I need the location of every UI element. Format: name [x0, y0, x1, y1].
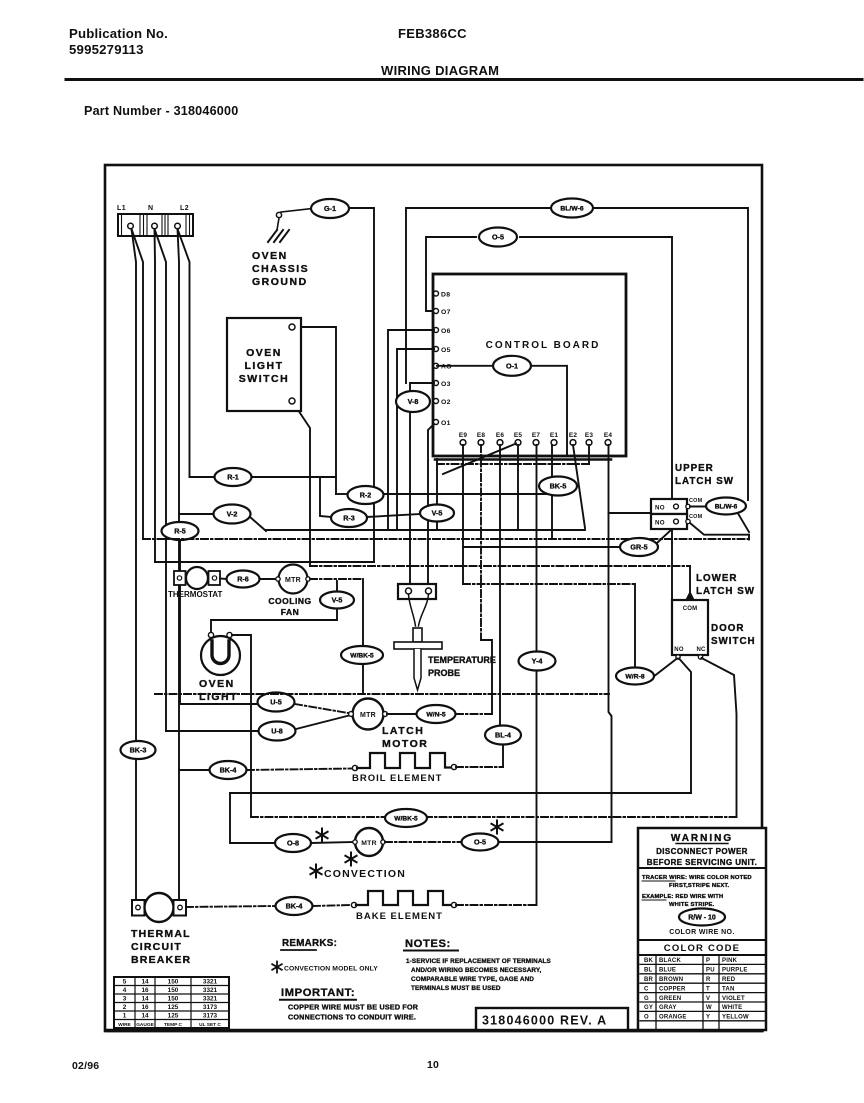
bake element: [351, 891, 456, 908]
wire label BL-4: [485, 726, 521, 745]
wire upper latch NO1 to BL/W-6: [690, 506, 706, 508]
wire pin O5 left and down: [397, 349, 434, 530]
wire row 494 G-2: [336, 493, 347, 495]
wire label R-1: [215, 468, 252, 486]
svg-text:3173: 3173: [203, 1004, 218, 1011]
svg-text:U-8: U-8: [271, 727, 283, 736]
svg-text:BK-5: BK-5: [550, 482, 567, 491]
tracer wire text: [642, 875, 752, 908]
svg-text:NO: NO: [655, 520, 665, 527]
wire label BL/W-6 top: [551, 199, 593, 218]
svg-text:O-5: O-5: [492, 233, 504, 242]
wire row 539 dash-dot: [143, 538, 749, 540]
svg-text:E9: E9: [459, 432, 468, 439]
svg-text:150: 150: [168, 987, 179, 994]
svg-text:SWITCH: SWITCH: [239, 373, 289, 385]
svg-text:P: P: [706, 958, 710, 964]
svg-text:COLOR WIRE NO.: COLOR WIRE NO.: [669, 929, 735, 936]
wire BL/W-6 junction stub to row 539: [748, 535, 750, 540]
svg-text:PROBE: PROBE: [428, 668, 460, 678]
svg-text:G-1: G-1: [324, 204, 336, 213]
svg-text:LIGHT: LIGHT: [199, 691, 238, 703]
wire pin E5 down: [517, 445, 519, 530]
svg-text:MTR: MTR: [361, 840, 377, 847]
svg-text:W/N-5: W/N-5: [426, 712, 445, 719]
control board pin E5: [514, 432, 523, 445]
svg-text:CHASSIS: CHASSIS: [252, 263, 309, 275]
upper latch switch body: [651, 499, 690, 529]
control board pin O1: [434, 420, 451, 427]
asterisk after O-8: [316, 829, 327, 842]
wire pin E7 down to Y-4: [536, 445, 538, 652]
svg-text:OVEN: OVEN: [246, 347, 282, 359]
wire label V-5 upper: [420, 505, 454, 522]
svg-text:BROIL ELEMENT: BROIL ELEMENT: [352, 773, 442, 784]
wire label U-5: [258, 693, 295, 712]
svg-text:BEFORE SERVICING UNIT.: BEFORE SERVICING UNIT.: [647, 858, 757, 867]
svg-text:COM: COM: [689, 498, 703, 504]
svg-text:O-1: O-1: [506, 361, 518, 370]
svg-text:RED: RED: [722, 977, 736, 983]
control board pin O5: [434, 347, 451, 354]
control board pin D8: [434, 291, 451, 298]
wire label W/N-5: [417, 705, 456, 723]
svg-text:E8: E8: [477, 432, 486, 439]
wire oven light switch top pin to vertical x336: [295, 327, 336, 494]
wire gauge table: [114, 977, 229, 1028]
svg-text:3321: 3321: [203, 979, 218, 986]
control board pin O2: [434, 399, 451, 406]
svg-text:O-8: O-8: [287, 839, 299, 848]
broil element: [352, 753, 456, 771]
svg-text:R-5: R-5: [174, 527, 186, 536]
svg-text:02/96: 02/96: [72, 1060, 99, 1072]
svg-text:O6: O6: [441, 328, 451, 335]
wire BK-4 to broil element dash-dot: [247, 769, 352, 771]
svg-text:BK-4: BK-4: [220, 766, 237, 775]
temperature probe body: [394, 628, 442, 690]
svg-text:R/W - 10: R/W - 10: [688, 915, 716, 922]
svg-text:EXAMPLE: RED WIRE WITH: EXAMPLE: RED WIRE WITH: [642, 894, 723, 900]
svg-text:GREEN: GREEN: [659, 996, 681, 1002]
wire label R-3: [331, 509, 367, 527]
svg-text:3321: 3321: [203, 987, 218, 994]
wire O-1 oval to internal vertical: [531, 366, 567, 454]
important copper wire text: [288, 1003, 419, 1022]
control board pin O7: [434, 309, 451, 316]
svg-text:MOTOR: MOTOR: [382, 738, 428, 750]
wire V-2 diagonal: [250, 517, 266, 531]
svg-text:COMPARABLE WIRE TYPE, GAGE AND: COMPARABLE WIRE TYPE, GAGE AND: [411, 976, 534, 983]
svg-text:LOWER: LOWER: [696, 573, 737, 584]
svg-text:PURPLE: PURPLE: [722, 968, 748, 974]
svg-text:R: R: [706, 977, 711, 983]
wire row 562: [155, 561, 374, 563]
wire vertical to W/R-8: [634, 584, 636, 667]
svg-text:3: 3: [123, 996, 127, 1003]
wire row 530: [266, 529, 585, 531]
label COOLING FAN: [268, 596, 311, 617]
ground stem: [277, 218, 279, 230]
wire convection motor to O-5 dash-dot: [385, 841, 461, 843]
wire label Y-4: [519, 652, 556, 671]
svg-text:OVEN: OVEN: [252, 250, 288, 262]
svg-text:FIRST,STRIPE NEXT.: FIRST,STRIPE NEXT.: [669, 883, 729, 889]
control board pin O3: [434, 381, 451, 388]
svg-text:E7: E7: [532, 432, 541, 439]
svg-text:318046000 REV. A: 318046000 REV. A: [482, 1014, 607, 1028]
svg-text:BL/W-6: BL/W-6: [715, 504, 738, 511]
svg-text:O2: O2: [441, 399, 451, 406]
wire L1 diagonal branch down to R-5 row: [132, 229, 144, 539]
svg-text:LATCH SW: LATCH SW: [696, 586, 755, 597]
svg-text:5: 5: [123, 979, 127, 986]
wire row 793 door legs to O-8: [230, 792, 691, 794]
wire label W/BK-5 upper: [341, 646, 383, 664]
wire diagonal to pin E5: [443, 444, 516, 475]
svg-text:BREAKER: BREAKER: [131, 954, 191, 966]
svg-text:NC: NC: [696, 647, 706, 653]
terminal L2 screw: [175, 223, 181, 229]
svg-text:NO: NO: [655, 505, 665, 512]
wire label O-5 lower: [462, 834, 499, 851]
wire pin O1 down to probe connector right: [428, 424, 434, 584]
wire BL/W-6 bottom leg: [738, 514, 749, 533]
svg-text:4: 4: [123, 987, 127, 994]
svg-text:E3: E3: [585, 432, 594, 439]
svg-text:W/BK-5: W/BK-5: [350, 653, 374, 660]
door switch body: [672, 600, 708, 655]
wire label R-5: [162, 522, 199, 540]
wire pin O6 left and down: [388, 330, 434, 530]
svg-text:LATCH: LATCH: [382, 725, 424, 737]
wire label O-5 top: [479, 228, 517, 247]
color code divider: [638, 939, 766, 941]
latch motor MTR: [349, 699, 388, 730]
thermostat body: [174, 567, 220, 589]
svg-text:TRACER WIRE: WIRE COLOR NOTED: TRACER WIRE: WIRE COLOR NOTED: [642, 875, 752, 881]
wire row 547 GR-5: [463, 546, 620, 548]
svg-text:E2: E2: [569, 432, 578, 439]
svg-text:CONVECTION MODEL ONLY: CONVECTION MODEL ONLY: [284, 966, 378, 973]
svg-text:5995279113: 5995279113: [69, 42, 144, 57]
wire label G-1: [311, 199, 349, 218]
svg-text:150: 150: [168, 979, 179, 986]
warning color code box: [638, 828, 766, 1030]
wire O-8 to convection motor: [311, 842, 355, 843]
svg-text:Y-4: Y-4: [532, 657, 543, 666]
asterisk below convection motor: [345, 853, 356, 866]
lower latch switch label: [696, 573, 755, 597]
warning text: [647, 833, 757, 867]
svg-text:BLACK: BLACK: [659, 958, 681, 964]
wire row 518 R-3 to V-5: [320, 477, 331, 517]
wire ground to G-1 oval: [281, 209, 312, 213]
svg-text:E5: E5: [514, 432, 523, 439]
wire label O-1: [493, 356, 531, 376]
svg-text:BAKE ELEMENT: BAKE ELEMENT: [356, 911, 443, 922]
wire cooling fan to W/BK-5 vertical dash-dot: [310, 578, 363, 580]
wire V-8 down to probe connector left: [409, 412, 411, 584]
control board pin E6: [496, 432, 505, 445]
wire row 584 dashed: [463, 583, 635, 585]
svg-text:E4: E4: [604, 432, 613, 439]
control board pin E7: [532, 432, 541, 445]
upper latch switch label: [675, 463, 734, 487]
svg-text:Part Number - 318046000: Part Number - 318046000: [84, 104, 238, 118]
diagram border frame: [105, 165, 762, 1031]
wire label R-2: [348, 486, 384, 504]
wire thermostat to R-6: [220, 578, 227, 581]
svg-text:16: 16: [141, 987, 149, 994]
wire label W/R-8: [616, 668, 654, 685]
wire L2 diagonal branch down to R-1 row: [178, 229, 190, 477]
wire R-5 down to thermostat: [179, 540, 181, 570]
svg-text:SWITCH: SWITCH: [711, 636, 756, 647]
svg-text:BLUE: BLUE: [659, 968, 676, 974]
temperature probe connector: [398, 584, 436, 599]
label OVEN CHASSIS GROUND: [252, 250, 309, 288]
svg-text:W/BK-5: W/BK-5: [394, 816, 418, 823]
control board pin E2: [569, 432, 578, 445]
wire BL-4 down to broil element: [502, 745, 504, 767]
wire pin E8 down dashed: [480, 445, 482, 640]
svg-text:14: 14: [141, 1013, 149, 1020]
wire row 477 R-1: [190, 476, 215, 478]
control board pin E8: [477, 432, 486, 445]
svg-text:COOLING: COOLING: [268, 596, 311, 606]
svg-text:GR-5: GR-5: [630, 543, 647, 552]
svg-text:1-SERVICE IF REPLACEMENT OF TE: 1-SERVICE IF REPLACEMENT OF TERMINALS: [406, 958, 552, 965]
svg-text:BROWN: BROWN: [659, 977, 683, 983]
header rule: [66, 78, 862, 81]
svg-text:WARNING: WARNING: [671, 833, 733, 844]
svg-text:AO: AO: [441, 364, 452, 371]
wire vertical x363 to W/BK-5: [362, 579, 364, 645]
wire O-5 top loop from control board pin O7: [426, 237, 476, 311]
svg-text:NO: NO: [674, 647, 684, 653]
wire label V-5 lower: [320, 592, 354, 609]
asterisk above O-5 right: [491, 821, 502, 834]
svg-text:AND/OR WIRING BECOMES NECESSAR: AND/OR WIRING BECOMES NECESSARY,: [411, 967, 542, 974]
svg-text:V: V: [706, 996, 710, 1002]
svg-text:REMARKS:: REMARKS:: [282, 938, 337, 949]
thermal circuit breaker: [132, 893, 186, 922]
door switch pin NO: [676, 655, 680, 659]
svg-text:COLOR CODE: COLOR CODE: [664, 943, 740, 954]
wire pin E9 down: [462, 445, 464, 584]
svg-text:O-5: O-5: [474, 838, 486, 847]
svg-text:PU: PU: [706, 968, 715, 974]
svg-text:Y: Y: [706, 1015, 710, 1021]
wire V-5 top feed: [436, 459, 438, 504]
svg-text:UL SET C: UL SET C: [199, 1022, 221, 1028]
wire pin E1 down through BK-5 to row 539: [551, 445, 553, 539]
remark convection model only: [272, 962, 378, 973]
svg-text:ORANGE: ORANGE: [659, 1015, 687, 1021]
svg-text:U-5: U-5: [270, 698, 282, 707]
svg-text:14: 14: [141, 979, 149, 986]
label TEMPERATURE PROBE: [428, 655, 496, 678]
svg-text:IMPORTANT:: IMPORTANT:: [281, 987, 355, 999]
svg-text:TAN: TAN: [722, 986, 735, 992]
label OVEN LIGHT: [199, 678, 238, 703]
terminal block L1 N L2: [118, 214, 193, 236]
svg-text:CONVECTION: CONVECTION: [324, 868, 406, 880]
control board box: [433, 274, 626, 456]
door switch pin NC: [698, 655, 702, 659]
wire U-8 row: [166, 730, 258, 732]
wire pin E6 down to BL-4: [499, 445, 501, 726]
svg-text:COPPER WIRE MUST BE USED FOR: COPPER WIRE MUST BE USED FOR: [288, 1003, 419, 1012]
svg-text:PINK: PINK: [722, 958, 738, 964]
wire O-8 feed corner: [230, 793, 274, 843]
control board pin O6: [434, 328, 451, 335]
wire oven light right pin down to row 817: [232, 635, 251, 817]
svg-text:DISCONNECT POWER: DISCONNECT POWER: [656, 847, 748, 856]
ground chassis hatch: [268, 230, 289, 242]
svg-text:W: W: [706, 1005, 712, 1011]
control board pin E4: [604, 432, 613, 445]
wire label U-8: [259, 722, 296, 741]
svg-text:O1: O1: [441, 420, 451, 427]
svg-text:WIRE: WIRE: [118, 1022, 131, 1028]
wire Y-4 down to bake element: [536, 671, 538, 905]
svg-text:THERMOSTAT: THERMOSTAT: [168, 590, 222, 599]
notes service text: [406, 958, 552, 992]
svg-text:COM: COM: [689, 514, 703, 520]
wire L1 straight down to BK-3 and thermal breaker: [132, 229, 137, 742]
svg-text:16: 16: [141, 1004, 149, 1011]
label DOOR SWITCH: [711, 623, 756, 647]
label IMPORTANT: [280, 987, 356, 1000]
wire L2 straight down to BK-4 junction and breaker right: [178, 229, 180, 900]
svg-text:WHITE STRIPE.: WHITE STRIPE.: [669, 902, 715, 908]
control board pin AO: [434, 363, 452, 370]
control board pin E1: [550, 432, 559, 445]
svg-text:LATCH SW: LATCH SW: [675, 476, 734, 487]
wire row 513 to upper latch: [609, 512, 652, 514]
wire door switch COM stem: [689, 566, 691, 597]
wire row 817 dash-dot: [251, 816, 737, 818]
svg-text:R-6: R-6: [237, 575, 249, 584]
part number revision box: [476, 1008, 628, 1030]
wire pin O3 to V-8: [410, 383, 434, 392]
svg-text:GY: GY: [644, 1005, 653, 1011]
svg-text:OVEN: OVEN: [199, 678, 235, 690]
wire thermostat leg down to U-5 row: [180, 586, 257, 704]
wire label O-8: [275, 834, 311, 852]
svg-text:LIGHT: LIGHT: [245, 360, 284, 372]
cooling fan motor MTR: [276, 565, 310, 594]
label LATCH MOTOR: [382, 725, 428, 750]
svg-text:NOTES:: NOTES:: [405, 938, 451, 950]
wire BK-4 to bake element dash-dot: [313, 905, 352, 906]
svg-text:VIOLET: VIOLET: [722, 996, 745, 1002]
svg-text:E1: E1: [550, 432, 559, 439]
svg-text:WIRING DIAGRAM: WIRING DIAGRAM: [381, 63, 499, 78]
wire G-1 to vertical x374: [348, 208, 374, 562]
wire label BL/W-6 right: [706, 498, 746, 515]
color code divider 2: [638, 954, 766, 956]
svg-text:125: 125: [168, 1004, 179, 1011]
wire pin E4 down to O-5 row: [609, 445, 612, 842]
wire upper latch NO2 diagonal: [690, 523, 749, 535]
svg-text:14: 14: [141, 996, 149, 1003]
svg-text:O7: O7: [441, 309, 451, 316]
svg-text:THERMAL: THERMAL: [131, 928, 191, 940]
wire row 514 V-2: [179, 513, 213, 515]
oven light switch pin top: [289, 324, 295, 330]
convection fan motor MTR: [353, 828, 385, 856]
label CONVECTION with asterisk: [310, 865, 406, 881]
svg-text:BK: BK: [644, 958, 654, 964]
svg-text:2: 2: [123, 1004, 127, 1011]
svg-text:G: G: [644, 996, 649, 1002]
svg-text:BK-3: BK-3: [130, 746, 147, 755]
wire U-5 to latch motor dash-dot: [295, 704, 351, 714]
control board pin E3: [585, 432, 594, 445]
svg-text:COPPER: COPPER: [659, 986, 686, 992]
svg-text:10: 10: [427, 1059, 439, 1071]
wire label V-8: [396, 391, 430, 412]
svg-text:DOOR: DOOR: [711, 623, 744, 634]
svg-text:TEMPERATURE: TEMPERATURE: [428, 655, 496, 665]
wire oven light switch bottom pin down to row566: [294, 404, 310, 566]
oven light bulb: [201, 632, 240, 675]
wire W/BK-5 down to row 694: [362, 665, 364, 694]
wire breaker to BK-4 bake dash-dot: [186, 906, 275, 907]
wire row 566 dash-dot to door switch COM: [310, 565, 690, 567]
wire pin E3 down to row 464: [588, 445, 590, 464]
wire V-5 to oven light left pin: [211, 609, 337, 632]
wire row 694 dash-dot: [155, 693, 609, 695]
wire broil element right to BL-4 dash-dot: [456, 766, 503, 768]
wire U-8 to latch motor: [296, 715, 351, 729]
svg-text:1: 1: [123, 1013, 127, 1020]
svg-text:CONNECTIONS TO CONDUIT WIRE.: CONNECTIONS TO CONDUIT WIRE.: [288, 1013, 416, 1022]
svg-text:C: C: [644, 986, 649, 992]
wire N straight down to row562: [154, 229, 157, 562]
ground terminal circle: [276, 212, 281, 217]
wire bake element right to Y-4 leg dash-dot: [456, 904, 537, 906]
wire N diagonal branch down to U-8 row: [155, 229, 167, 731]
svg-text:GROUND: GROUND: [252, 276, 308, 288]
oven light switch box: [227, 318, 301, 411]
svg-text:MTR: MTR: [360, 712, 376, 719]
svg-text:BL/W-6: BL/W-6: [560, 206, 583, 213]
color code table: [640, 955, 766, 1030]
control board bottom bus line: [435, 458, 611, 461]
control board pin E9: [459, 432, 468, 445]
wire row 464 dashed: [437, 463, 589, 465]
svg-text:WHITE: WHITE: [722, 1005, 742, 1011]
svg-text:BL-4: BL-4: [495, 731, 511, 740]
svg-text:3173: 3173: [203, 1013, 218, 1020]
wire label W/BK-5 lower: [385, 809, 427, 827]
svg-text:V-2: V-2: [227, 510, 238, 519]
wire label BK-3: [121, 741, 156, 759]
svg-text:BL: BL: [644, 968, 653, 974]
svg-text:TERMINALS MUST BE USED: TERMINALS MUST BE USED: [411, 985, 501, 992]
svg-text:L2: L2: [180, 205, 189, 212]
svg-text:GAUGE: GAUGE: [136, 1022, 154, 1028]
label REMARKS: [281, 938, 337, 950]
svg-text:TEMP C: TEMP C: [164, 1022, 183, 1028]
wire GR-5 diagonal to upper latch: [657, 530, 671, 543]
svg-text:O: O: [644, 1015, 649, 1021]
svg-text:Publication No.: Publication No.: [69, 26, 168, 41]
